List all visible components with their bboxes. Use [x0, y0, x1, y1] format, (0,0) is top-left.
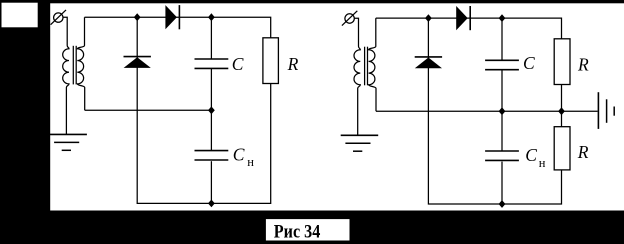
svg-text:R: R	[577, 142, 589, 162]
svg-text:R: R	[577, 55, 589, 75]
svg-text:C: C	[232, 54, 244, 74]
svg-text:C: C	[525, 145, 537, 165]
svg-text:н: н	[247, 155, 254, 169]
svg-text:н: н	[539, 156, 546, 170]
svg-text:Рис 34: Рис 34	[274, 222, 321, 242]
svg-text:C: C	[523, 53, 535, 73]
svg-text:C: C	[233, 145, 245, 165]
svg-text:R: R	[287, 54, 299, 74]
